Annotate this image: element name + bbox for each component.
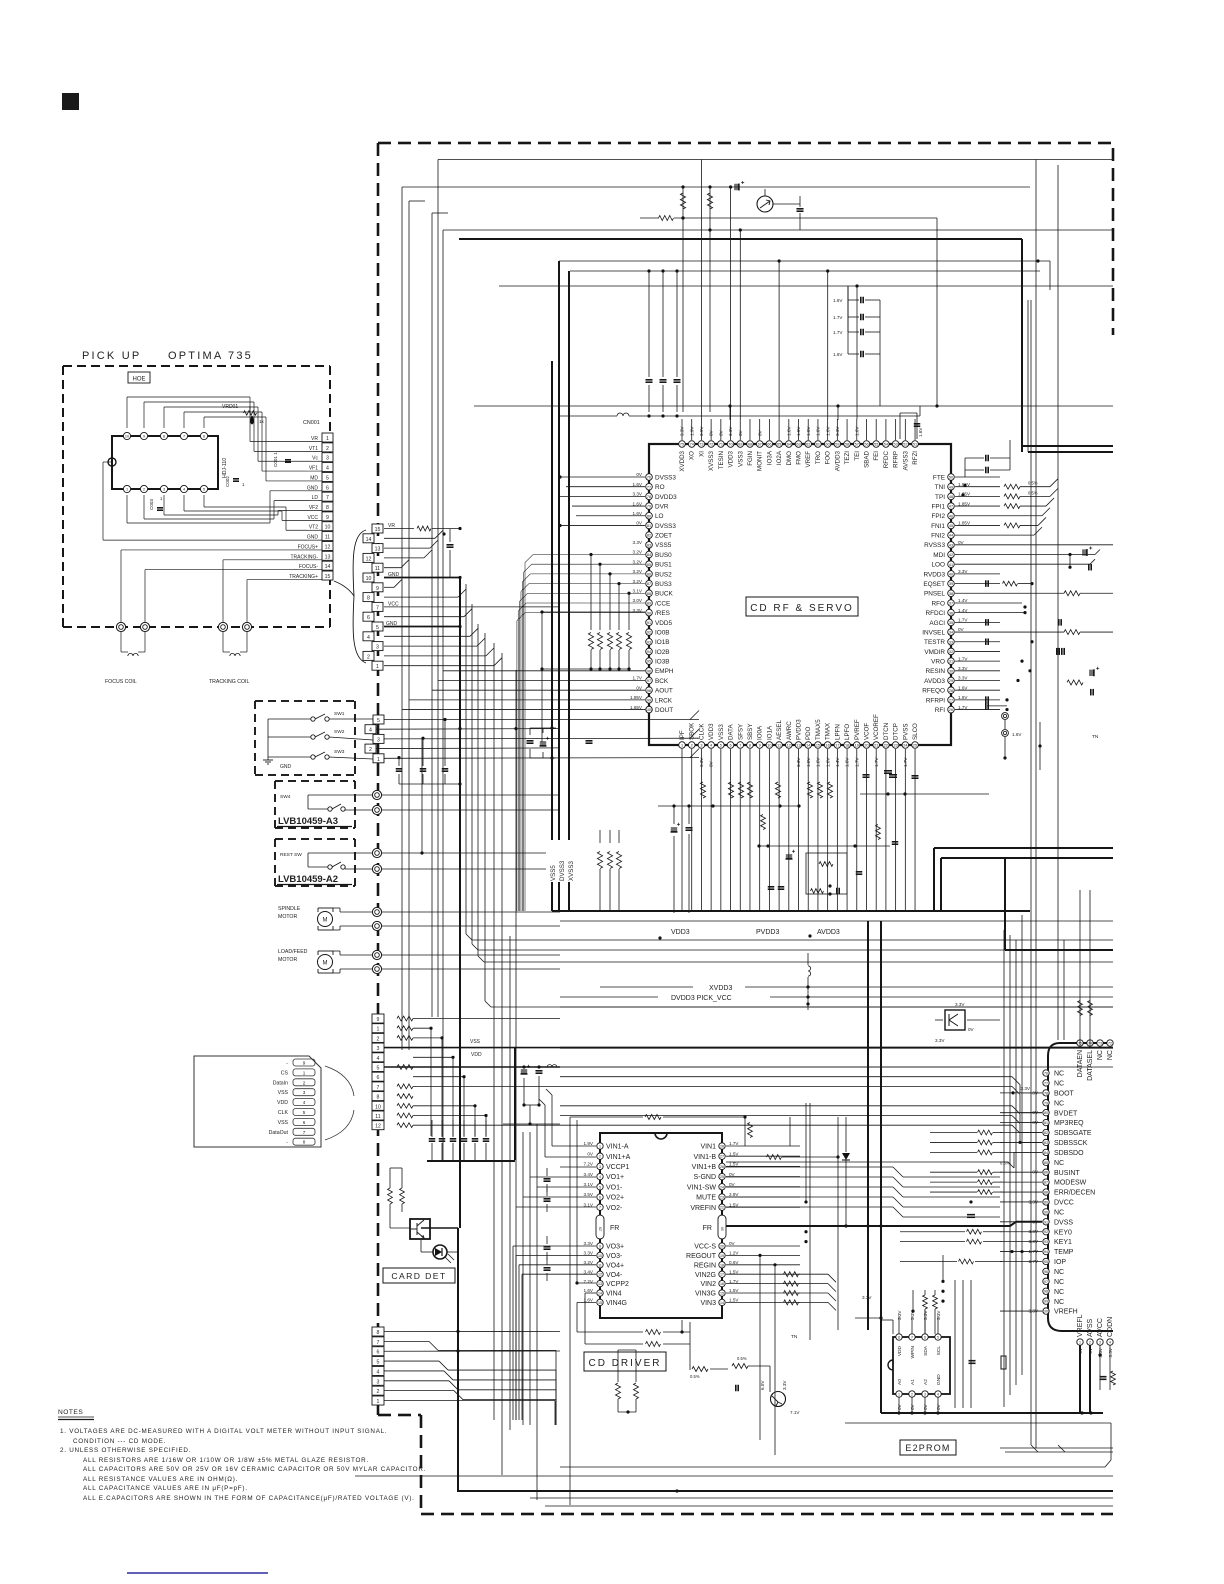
svg-text:1.4V: 1.4V	[958, 598, 968, 603]
svg-text:75: 75	[680, 443, 684, 447]
svg-text:8: 8	[377, 1095, 380, 1101]
svg-text:AOUT: AOUT	[655, 688, 673, 695]
svg-text:1.7V: 1.7V	[833, 330, 843, 335]
svg-text:30: 30	[949, 669, 953, 673]
svg-text:14: 14	[366, 537, 372, 543]
svg-text:LVB10459-A2: LVB10459-A2	[278, 874, 338, 885]
svg-text:0V: 0V	[958, 627, 965, 632]
svg-text:41: 41	[949, 563, 953, 567]
svg-text:3: 3	[163, 488, 165, 492]
svg-text:18: 18	[845, 744, 849, 748]
svg-text:Vc: Vc	[312, 456, 318, 462]
svg-text:TN: TN	[791, 1334, 798, 1340]
svg-text:3: 3	[924, 1393, 926, 1397]
svg-text:48: 48	[949, 495, 953, 499]
svg-text:LVB10459-A3: LVB10459-A3	[278, 816, 338, 827]
svg-text:LO: LO	[655, 513, 664, 520]
svg-text:VIN1+A: VIN1+A	[606, 1154, 631, 1161]
svg-text:VCOREF: VCOREF	[873, 714, 880, 740]
svg-text:23: 23	[720, 1196, 724, 1200]
svg-text:SBSY: SBSY	[747, 723, 754, 740]
svg-text:SW2: SW2	[334, 729, 345, 735]
svg-text:ALL RESISTORS ARE 1/16W OR 1/1: ALL RESISTORS ARE 1/16W OR 1/10W OR 1/8W…	[83, 1457, 369, 1464]
svg-text:83: 83	[647, 543, 651, 547]
svg-text:5: 5	[303, 1110, 306, 1115]
svg-text:2: 2	[143, 488, 145, 492]
svg-text:IO3B: IO3B	[655, 659, 670, 666]
svg-text:1: 1	[898, 1393, 900, 1397]
svg-text:RFRPI: RFRPI	[926, 697, 945, 704]
svg-text:59: 59	[835, 443, 839, 447]
svg-text:XI: XI	[698, 451, 705, 457]
svg-text:TRACKING-: TRACKING-	[291, 554, 319, 560]
svg-text:GND: GND	[307, 535, 319, 541]
svg-text:ALL CAPACITANCE VALUES ARE IN: ALL CAPACITANCE VALUES ARE IN μF(P=pF).	[83, 1485, 248, 1492]
svg-text:IO0A: IO0A	[757, 725, 764, 740]
svg-text:RFO: RFO	[932, 600, 946, 607]
svg-text:DVSS3: DVSS3	[559, 860, 566, 881]
svg-text:BUSINT: BUSINT	[1054, 1170, 1080, 1177]
svg-text:3.1V: 3.1V	[633, 588, 643, 593]
svg-text:IO2B: IO2B	[655, 649, 670, 656]
svg-text:2: 2	[1089, 1341, 1091, 1345]
svg-text:VDD5: VDD5	[655, 620, 672, 627]
svg-text:DataIn: DataIn	[273, 1080, 288, 1086]
svg-text:VCC: VCC	[307, 515, 318, 521]
svg-text:96: 96	[647, 669, 651, 673]
svg-text:14: 14	[806, 744, 810, 748]
svg-text:VDD3: VDD3	[728, 450, 735, 467]
svg-text:C002: C002	[225, 476, 230, 487]
svg-text:INVSEL: INVSEL	[922, 629, 945, 636]
svg-text:96: 96	[1044, 1270, 1048, 1274]
svg-text:0V: 0V	[729, 1241, 736, 1246]
svg-text:MDI: MDI	[933, 552, 945, 559]
svg-text:AVDD3: AVDD3	[817, 929, 840, 936]
svg-text:90: 90	[647, 611, 651, 615]
svg-text:37: 37	[949, 602, 953, 606]
svg-text:20: 20	[864, 744, 868, 748]
svg-text:GND: GND	[307, 485, 319, 491]
svg-text:81: 81	[1044, 1121, 1048, 1125]
svg-text:8: 8	[749, 744, 751, 748]
svg-text:TEZI: TEZI	[844, 451, 851, 465]
svg-text:DVDD3 PICK_VCC: DVDD3 PICK_VCC	[671, 995, 732, 1002]
svg-text:2: 2	[367, 654, 370, 660]
svg-text:SBAD: SBAD	[863, 450, 870, 467]
svg-text:PICK UP: PICK UP	[82, 350, 141, 362]
svg-text:KEY1: KEY1	[1054, 1239, 1072, 1246]
svg-text:PVREF: PVREF	[854, 719, 861, 740]
svg-text:VDD: VDD	[277, 1100, 288, 1106]
svg-text:19: 19	[720, 1254, 724, 1258]
svg-text:7: 7	[377, 1340, 380, 1346]
svg-text:LPFO: LPFO	[844, 724, 851, 740]
svg-text:32: 32	[949, 650, 953, 654]
svg-text:72: 72	[709, 443, 713, 447]
svg-text:15: 15	[816, 744, 820, 748]
svg-text:AVCC: AVCC	[1097, 1318, 1104, 1337]
svg-text:19: 19	[855, 744, 859, 748]
svg-text:1.95V: 1.95V	[630, 695, 643, 700]
svg-text:0V: 0V	[636, 521, 643, 526]
svg-text:6: 6	[303, 1120, 306, 1125]
svg-text:1.5V: 1.5V	[729, 1151, 739, 1156]
svg-text:9: 9	[759, 744, 761, 748]
svg-text:3: 3	[303, 1090, 306, 1095]
svg-text:CONDITION --- CD MODE.: CONDITION --- CD MODE.	[73, 1438, 166, 1445]
svg-text:S-GND: S-GND	[693, 1174, 716, 1181]
svg-text:IO3A: IO3A	[766, 450, 773, 465]
svg-text:IO1B: IO1B	[655, 639, 670, 646]
svg-text:VREFH: VREFH	[1054, 1309, 1078, 1316]
svg-text:XO: XO	[689, 451, 696, 460]
svg-text:GND: GND	[936, 1374, 942, 1385]
svg-text:3.4V: 3.4V	[584, 1172, 594, 1177]
svg-text:VREF: VREF	[805, 451, 812, 468]
svg-text:9: 9	[376, 586, 379, 592]
svg-text:NC: NC	[1054, 1299, 1064, 1306]
svg-text:1: 1	[377, 757, 380, 763]
svg-text:81: 81	[647, 524, 651, 528]
svg-text:15: 15	[325, 574, 331, 580]
svg-text:NC: NC	[1054, 1160, 1064, 1167]
svg-text:11: 11	[777, 744, 781, 748]
svg-text:85: 85	[1044, 1161, 1048, 1165]
svg-text:PDO: PDO	[805, 726, 812, 740]
svg-text:BUCK: BUCK	[655, 591, 673, 598]
svg-text:3.3V: 3.3V	[782, 1380, 787, 1390]
svg-text:BOOT: BOOT	[1054, 1090, 1075, 1097]
svg-text:RESIN: RESIN	[925, 668, 945, 675]
svg-text:22: 22	[884, 744, 888, 748]
svg-text:13: 13	[598, 1282, 602, 1286]
svg-text:FR: FR	[610, 1225, 619, 1232]
svg-text:5: 5	[599, 1185, 601, 1189]
svg-text:VT2: VT2	[309, 525, 318, 531]
svg-text:VSS: VSS	[278, 1120, 289, 1126]
svg-text:FPI2: FPI2	[932, 513, 946, 520]
svg-text:4: 4	[599, 1175, 601, 1179]
svg-text:67: 67	[758, 443, 762, 447]
svg-text:MUTE: MUTE	[696, 1195, 716, 1202]
svg-text:40: 40	[949, 573, 953, 577]
svg-text:24: 24	[903, 744, 907, 748]
svg-text:1: 1	[377, 1027, 380, 1033]
svg-text:10: 10	[366, 576, 372, 582]
svg-text:6: 6	[729, 744, 731, 748]
svg-text:26: 26	[720, 1165, 724, 1169]
svg-text:E2PROM: E2PROM	[905, 1443, 950, 1453]
svg-text:5: 5	[377, 718, 380, 724]
svg-text:VCOF: VCOF	[863, 723, 870, 740]
svg-text:4: 4	[937, 1393, 939, 1397]
svg-text:3.3V: 3.3V	[935, 1038, 945, 1043]
svg-text:6: 6	[367, 615, 370, 621]
svg-text:55: 55	[874, 443, 878, 447]
svg-text:DOUT: DOUT	[655, 707, 673, 714]
svg-text:VSS5: VSS5	[655, 542, 672, 549]
svg-text:SW3: SW3	[334, 749, 345, 755]
svg-text:88: 88	[647, 592, 651, 596]
svg-text:5: 5	[377, 1066, 380, 1072]
svg-text:51: 51	[913, 443, 917, 447]
svg-text:IO2A: IO2A	[776, 450, 783, 465]
svg-text:99: 99	[1044, 1300, 1048, 1304]
svg-text:VO2+: VO2+	[606, 1195, 624, 1202]
svg-text:1.7V: 1.7V	[729, 1279, 739, 1284]
svg-text:FEI: FEI	[873, 451, 880, 461]
svg-text:RVDD3: RVDD3	[923, 571, 945, 578]
svg-text:3.3V: 3.3V	[862, 1295, 872, 1300]
svg-text:DVSS: DVSS	[1054, 1219, 1073, 1226]
svg-text:CD DRIVER: CD DRIVER	[588, 1358, 661, 1369]
svg-text:VIN4: VIN4	[606, 1291, 622, 1298]
svg-text:5: 5	[376, 625, 379, 631]
svg-text:BVDET: BVDET	[1054, 1110, 1078, 1117]
svg-text:NC: NC	[1054, 1081, 1064, 1088]
svg-text:3: 3	[599, 1165, 601, 1169]
svg-text:0V: 0V	[968, 1027, 975, 1032]
svg-text:0V: 0V	[636, 472, 643, 477]
svg-text:VO3-: VO3-	[606, 1253, 623, 1260]
svg-text:8: 8	[163, 435, 165, 439]
svg-text:EQSET: EQSET	[923, 581, 945, 588]
svg-text:9: 9	[143, 435, 145, 439]
svg-text:1.9V: 1.9V	[584, 1141, 594, 1146]
svg-text:1.6V: 1.6V	[584, 1288, 594, 1293]
svg-text:95: 95	[1044, 1260, 1048, 1264]
svg-text:VT1: VT1	[309, 446, 318, 452]
svg-text:CS: CS	[281, 1070, 289, 1076]
svg-text:93: 93	[647, 640, 651, 644]
svg-text:15: 15	[720, 1292, 724, 1296]
svg-text:1.7V: 1.7V	[958, 656, 968, 661]
svg-text:1: 1	[242, 482, 245, 487]
svg-text:CN001: CN001	[303, 420, 320, 426]
svg-text:5: 5	[377, 1360, 380, 1366]
svg-text:98: 98	[647, 689, 651, 693]
svg-text:1.4V: 1.4V	[958, 608, 968, 613]
svg-text:TPI: TPI	[935, 494, 945, 501]
svg-text:1: 1	[126, 488, 128, 492]
svg-text:RFZI: RFZI	[912, 451, 919, 465]
svg-text:74: 74	[690, 443, 694, 447]
svg-text:VSS: VSS	[470, 1039, 481, 1045]
svg-text:10: 10	[598, 1254, 602, 1258]
svg-text:29: 29	[949, 679, 953, 683]
svg-text:45: 45	[949, 524, 953, 528]
svg-text:FMO: FMO	[796, 451, 803, 465]
svg-text:8: 8	[377, 1330, 380, 1336]
svg-text:14: 14	[325, 564, 331, 570]
svg-text:3.0V: 3.0V	[633, 598, 643, 603]
svg-text:46: 46	[949, 514, 953, 518]
svg-text:15: 15	[598, 1301, 602, 1305]
svg-text:83: 83	[1044, 1141, 1048, 1145]
svg-text:5: 5	[203, 488, 205, 492]
svg-text:1.85V: 1.85V	[958, 501, 971, 506]
svg-text:13: 13	[375, 547, 381, 553]
svg-text:AVDD3: AVDD3	[924, 678, 945, 685]
svg-text:SDBSDO: SDBSDO	[1054, 1150, 1084, 1157]
svg-text:87: 87	[1044, 1181, 1048, 1185]
svg-text:3.2V: 3.2V	[633, 559, 643, 564]
svg-text:CDDN: CDDN	[1107, 1317, 1114, 1337]
svg-text:88: 88	[1044, 1191, 1048, 1195]
svg-text:A2: A2	[923, 1379, 929, 1385]
svg-text:PVDD3: PVDD3	[796, 719, 803, 740]
svg-text:M: M	[323, 961, 328, 967]
svg-text:MOTOR: MOTOR	[278, 914, 297, 920]
svg-text:79: 79	[1044, 1101, 1048, 1105]
svg-text:76: 76	[647, 476, 651, 480]
svg-text:85: 85	[647, 563, 651, 567]
svg-text:PVSS: PVSS	[902, 723, 909, 740]
svg-text:0V: 0V	[636, 685, 643, 690]
svg-text:80: 80	[1044, 1111, 1048, 1115]
svg-text:3.3V: 3.3V	[955, 1002, 965, 1007]
svg-text:6: 6	[377, 1075, 380, 1081]
svg-text:77: 77	[1044, 1081, 1048, 1085]
svg-text:A1: A1	[910, 1379, 916, 1385]
svg-text:3.2V: 3.2V	[633, 579, 643, 584]
svg-text:7.2V: 7.2V	[584, 1162, 594, 1167]
svg-text:GND: GND	[280, 764, 292, 770]
svg-text:RFDC: RFDC	[883, 450, 890, 468]
svg-text:14: 14	[720, 1301, 724, 1305]
svg-text:1.6V: 1.6V	[958, 695, 968, 700]
svg-text:49: 49	[949, 485, 953, 489]
svg-text:52: 52	[903, 443, 907, 447]
svg-text:LOAD/FEED: LOAD/FEED	[278, 949, 308, 955]
svg-text:100: 100	[646, 708, 652, 712]
svg-text:12: 12	[366, 556, 372, 562]
svg-text:DATASEL: DATASEL	[1087, 1050, 1094, 1081]
svg-text:4: 4	[367, 635, 370, 641]
svg-text:72: 72	[1108, 1042, 1112, 1046]
svg-text:AWRC: AWRC	[786, 721, 793, 740]
svg-text:1.5V: 1.5V	[729, 1288, 739, 1293]
svg-text:93: 93	[1044, 1240, 1048, 1244]
svg-text:NOTES: NOTES	[58, 1409, 83, 1416]
svg-text:MD: MD	[310, 475, 318, 481]
svg-text:58: 58	[845, 443, 849, 447]
svg-text:VCC-S: VCC-S	[694, 1244, 716, 1251]
svg-text:ZOET: ZOET	[655, 533, 672, 540]
svg-text:HDJ-110: HDJ-110	[222, 458, 228, 478]
svg-text:82: 82	[647, 534, 651, 538]
svg-text:60: 60	[826, 443, 830, 447]
svg-text:DVCC: DVCC	[1054, 1200, 1074, 1207]
svg-text:1.6V: 1.6V	[1012, 732, 1022, 737]
svg-text:VIN1+B: VIN1+B	[692, 1164, 717, 1171]
svg-text:1: 1	[1079, 1341, 1081, 1345]
svg-text:/CCE: /CCE	[655, 600, 670, 607]
svg-text:TESIN: TESIN	[718, 451, 725, 469]
svg-text:8: 8	[326, 505, 329, 511]
svg-text:82: 82	[1044, 1131, 1048, 1135]
svg-text:RFI: RFI	[935, 707, 946, 714]
svg-text:ERR/DECEN: ERR/DECEN	[1054, 1190, 1095, 1197]
svg-text:1.6V: 1.6V	[633, 482, 643, 487]
svg-text:VCPP2: VCPP2	[606, 1281, 629, 1288]
svg-text:6: 6	[326, 485, 329, 491]
svg-text:9: 9	[377, 1017, 380, 1023]
svg-text:10: 10	[375, 1104, 381, 1110]
svg-text:87: 87	[647, 582, 651, 586]
svg-text:VDD: VDD	[897, 1345, 903, 1356]
svg-text:9: 9	[599, 1245, 601, 1249]
svg-text:1. VOLTAGES ARE DC-MEASURED WI: 1. VOLTAGES ARE DC-MEASURED WITH A DIGIT…	[60, 1428, 387, 1435]
svg-text:3.1V: 3.1V	[584, 1182, 594, 1187]
svg-text:IOP: IOP	[1054, 1259, 1066, 1266]
svg-text:C003: C003	[149, 499, 154, 510]
svg-text:DATA: DATA	[728, 724, 735, 740]
svg-text:SCL: SCL	[936, 1346, 942, 1356]
svg-text:35: 35	[949, 621, 953, 625]
svg-text:RFEQO: RFEQO	[922, 688, 945, 695]
svg-text:1.6V: 1.6V	[833, 352, 843, 357]
svg-text:VREFL: VREFL	[1077, 1314, 1084, 1337]
svg-text:DTCP: DTCP	[893, 723, 900, 740]
svg-text:3: 3	[700, 744, 702, 748]
svg-text:1: 1	[377, 1399, 380, 1405]
svg-text:VCCP1: VCCP1	[606, 1164, 629, 1171]
svg-text:2: 2	[911, 1393, 913, 1397]
svg-text:8: 8	[367, 596, 370, 602]
svg-text:NC: NC	[1054, 1071, 1064, 1078]
svg-text:VIN2: VIN2	[700, 1281, 716, 1288]
svg-text:TEMP: TEMP	[1054, 1249, 1074, 1256]
svg-text:SBOK: SBOK	[689, 722, 696, 740]
svg-text:VO2-: VO2-	[606, 1205, 623, 1212]
svg-text:25: 25	[913, 744, 917, 748]
svg-text:3.3V: 3.3V	[958, 676, 968, 681]
svg-text:VDD: VDD	[471, 1052, 482, 1058]
svg-text:1: 1	[599, 1145, 601, 1149]
svg-text:11: 11	[375, 566, 380, 572]
svg-text:80: 80	[647, 514, 651, 518]
svg-text:36: 36	[949, 611, 953, 615]
svg-text:SW1: SW1	[334, 711, 345, 717]
svg-text:90: 90	[1044, 1210, 1048, 1214]
svg-text:0.5%: 0.5%	[690, 1374, 700, 1379]
svg-text:IO1A: IO1A	[766, 725, 773, 740]
svg-text:LD: LD	[312, 495, 319, 501]
svg-text:2: 2	[303, 1080, 306, 1085]
svg-text:6: 6	[924, 1336, 926, 1340]
svg-text:ALL E.CAPACITORS ARE SHOWN IN: ALL E.CAPACITORS ARE SHOWN IN THE FORM O…	[83, 1495, 415, 1502]
svg-text:7: 7	[326, 495, 329, 501]
svg-text:ALL RESISTANCE VALUES ARE IN O: ALL RESISTANCE VALUES ARE IN OHM(Ω).	[83, 1476, 238, 1483]
svg-text:4: 4	[303, 1100, 306, 1105]
svg-text:SW4: SW4	[280, 794, 291, 800]
svg-text:0V: 0V	[729, 1182, 736, 1187]
svg-text:8: 8	[303, 1140, 306, 1145]
svg-text:91: 91	[1044, 1220, 1048, 1224]
svg-text:TESTR: TESTR	[924, 639, 945, 646]
svg-text:68: 68	[748, 443, 752, 447]
svg-text:VO1+: VO1+	[606, 1174, 624, 1181]
svg-text:LOO: LOO	[932, 562, 946, 569]
svg-text:WPIN: WPIN	[910, 1345, 916, 1358]
svg-text:7: 7	[183, 435, 185, 439]
svg-text:VO1-: VO1-	[606, 1184, 623, 1191]
svg-text:7: 7	[377, 1085, 380, 1091]
svg-text:DataOut: DataOut	[269, 1130, 289, 1136]
svg-text:XVSS3: XVSS3	[708, 450, 715, 471]
